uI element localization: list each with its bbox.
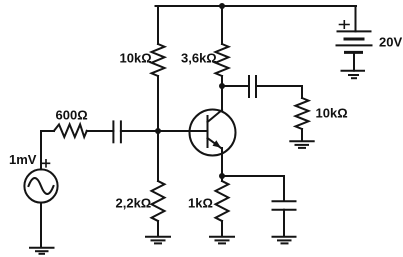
svg-text:3,6kΩ: 3,6kΩ (181, 51, 217, 66)
svg-text:1kΩ: 1kΩ (188, 196, 213, 211)
svg-text:10kΩ: 10kΩ (120, 51, 152, 66)
svg-text:10kΩ: 10kΩ (316, 106, 348, 121)
svg-text:2,2kΩ: 2,2kΩ (116, 196, 152, 211)
svg-text:20V: 20V (379, 35, 402, 50)
svg-text:600Ω: 600Ω (56, 108, 88, 123)
svg-text:1mV: 1mV (9, 152, 37, 167)
